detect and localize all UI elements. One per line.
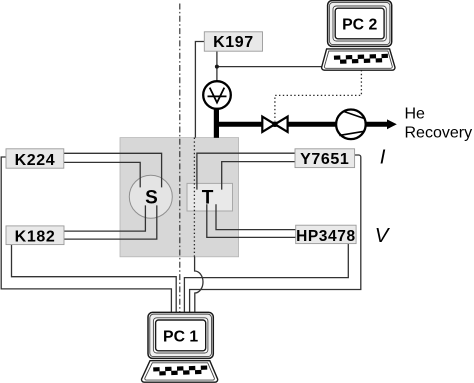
svg-text:I: I [380, 146, 386, 169]
bus wire Y7651 to PC1 [190, 155, 361, 312]
capillary dotted line inside cryostat [193, 138, 195, 257]
svg-text:PC 1: PC 1 [163, 329, 198, 346]
svg-text:He: He [405, 106, 426, 123]
svg-text:K224: K224 [15, 152, 56, 169]
svg-text:K197: K197 [213, 34, 254, 51]
computer PC1 [142, 312, 218, 382]
instrument K182 [6, 226, 64, 246]
bus wire K224 to PC1 [1, 157, 171, 312]
wire K182 to S lower-right terminal [64, 205, 157, 239]
computer PC2 [322, 1, 395, 71]
svg-text:Recovery: Recovery [405, 125, 473, 142]
wire K224 to S upper-right terminal [64, 153, 162, 187]
wire T upper-right terminal to Y7651 [222, 162, 295, 190]
junction node [215, 65, 219, 69]
cryostat body (gray box) [120, 138, 239, 257]
dotted control line PC2 to valve [275, 70, 362, 121]
sample S circle [129, 175, 172, 218]
instrument Y7651 [295, 149, 355, 168]
bus wire K182 to PC1 [12, 245, 177, 313]
svg-text:T: T [202, 187, 214, 208]
pumping pipe horizontal [214, 122, 388, 127]
wire T lower-right terminal to HP3478 [216, 204, 296, 229]
wire K197 to gauge [216, 51, 218, 81]
wire K182 to S lower-left terminal [64, 205, 145, 231]
centre axis dash-dot line [179, 4, 181, 313]
thermometer T box [187, 183, 233, 211]
svg-text:PC 2: PC 2 [342, 17, 377, 34]
pump [336, 110, 366, 140]
svg-text:V: V [375, 224, 391, 247]
wire T upper-left terminal to Y7651 [197, 153, 295, 189]
wire cryostat bottom to PC1 with hop over bus lines [195, 257, 203, 313]
valve [262, 117, 287, 132]
wire T lower-left terminal to HP3478 [207, 204, 296, 237]
wire K224 to S upper-left terminal [64, 162, 140, 187]
flow arrowhead [387, 119, 397, 129]
pumping pipe vertical [214, 108, 219, 138]
instrument K224 [6, 149, 64, 169]
bus wire HP3478 to PC1 [184, 244, 348, 313]
svg-text:HP3478: HP3478 [296, 228, 356, 245]
svg-text:S: S [145, 187, 158, 208]
vacuum gauge [203, 81, 231, 109]
wire junction to PC2 [217, 66, 323, 68]
wire K197 to cryostat top [195, 42, 204, 138]
svg-text:Y7651: Y7651 [300, 151, 349, 168]
svg-text:K182: K182 [15, 229, 56, 246]
instrument K197 [204, 32, 262, 51]
instrument HP3478 [296, 225, 356, 245]
